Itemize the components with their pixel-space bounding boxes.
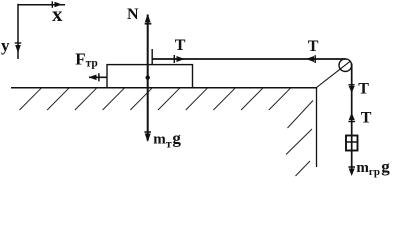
weight m_т g arrow xyxy=(144,78,151,142)
weight m_гр g arrow xyxy=(348,167,355,176)
table surface line xyxy=(11,87,317,89)
rope attachment tick on block xyxy=(151,49,153,65)
load (hanging mass) xyxy=(346,136,358,151)
friction force F_тр arrow xyxy=(89,73,108,81)
table edge hatching xyxy=(286,101,313,177)
svg-text:T: T xyxy=(175,37,186,54)
pulley wheel xyxy=(339,59,352,72)
center dot on block xyxy=(146,75,150,79)
rope vertical segment xyxy=(351,64,353,171)
svg-text:y: y xyxy=(1,36,10,55)
svg-text:T: T xyxy=(361,110,372,127)
coordinate axes (x right, y down) xyxy=(15,1,65,59)
svg-text:T: T xyxy=(308,38,319,55)
svg-text:T: T xyxy=(358,80,369,97)
block (mass on table) xyxy=(107,65,193,88)
svg-text:N: N xyxy=(127,6,139,23)
tension T on block (right arrow) xyxy=(174,55,184,63)
tension T downward (below pulley) xyxy=(348,85,354,93)
normal force N arrow xyxy=(145,14,152,78)
svg-text:x: x xyxy=(52,2,63,26)
tension T at pulley (left arrow) xyxy=(306,55,315,63)
tension T upward on load xyxy=(348,113,355,122)
table surface hatching xyxy=(20,88,291,110)
table vertical edge xyxy=(316,88,318,167)
rope horizontal segment xyxy=(152,58,345,60)
pulley bracket xyxy=(317,61,351,87)
